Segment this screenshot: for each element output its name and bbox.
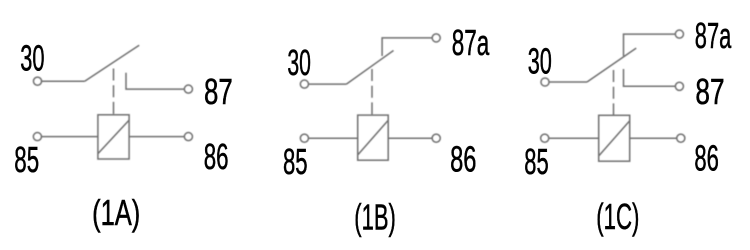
relay 1A: wire 85 to coil (41, 136, 98, 138)
relay 1B: switch arm (346, 51, 393, 85)
relay 1C: coil diagonal (599, 121, 629, 156)
relay 1C: terminal 86 (677, 134, 685, 142)
relay 1B: terminal 30 (300, 80, 308, 88)
relay 1B: NC contact and wire to 87a (382, 38, 433, 56)
svg-text:86: 86 (204, 138, 229, 178)
svg-text:87a: 87a (695, 17, 732, 57)
svg-text:86: 86 (450, 140, 476, 180)
relay 1B: coil box (358, 115, 389, 160)
relay 1A: wire 30 to pivot (41, 80, 85, 82)
svg-text:85: 85 (283, 143, 308, 183)
svg-text:85: 85 (14, 141, 39, 181)
relay 1C: coil box (599, 115, 630, 161)
relay 1C: NO contact and wire to 87 (624, 69, 676, 86)
relay 1A: switch arm (85, 45, 140, 81)
relay 1B: terminal 85 (300, 134, 308, 142)
relay 1C: terminal 87 (675, 82, 683, 90)
relay 1C: dashed actuator link (613, 70, 615, 115)
relay 1A: terminal 86 (184, 133, 192, 141)
relay 1A: wire coil to 86 (129, 136, 185, 138)
relay 1A: terminal 85 (33, 133, 41, 141)
relay 1A: terminal 30 (33, 77, 41, 85)
svg-text:87a: 87a (452, 24, 490, 64)
svg-text:(1C): (1C) (596, 198, 639, 238)
svg-text:(1B): (1B) (354, 198, 396, 238)
svg-text:87: 87 (204, 72, 233, 112)
relay 1B: terminal 86 (432, 134, 440, 142)
relay 1B: wire 30 to pivot (308, 83, 346, 85)
relay 1C: switch arm (587, 48, 636, 82)
relay 1C: terminal 87a (675, 30, 683, 38)
relay 1C: terminal 30 (541, 78, 549, 86)
relay 1C: wire coil to 86 (630, 137, 678, 139)
relay 1A: dashed actuator link (113, 69, 115, 115)
relay 1A: NO contact and wire to 87 (126, 73, 185, 89)
svg-text:87: 87 (695, 72, 724, 112)
relay 1B: coil diagonal (358, 121, 388, 155)
relay 1B: terminal 87a (432, 34, 440, 42)
svg-text:(1A): (1A) (92, 193, 140, 233)
relay 1C: NC contact and wire to 87a (624, 34, 676, 56)
relay 1C: terminal 85 (541, 134, 549, 142)
svg-text:30: 30 (20, 39, 44, 79)
relay 1A: terminal 87 (184, 85, 192, 93)
svg-text:86: 86 (694, 139, 718, 179)
svg-text:30: 30 (287, 43, 311, 83)
relay 1B: dashed actuator link (371, 69, 373, 115)
relay 1B: wire 85 to coil (308, 137, 358, 139)
relay 1A: coil diagonal (98, 120, 129, 153)
relay 1A: coil box (98, 115, 129, 159)
relay 1C: wire 30 to pivot (549, 81, 587, 83)
svg-text:30: 30 (528, 42, 552, 82)
relay 1C: wire 85 to coil (548, 137, 598, 139)
svg-text:85: 85 (524, 143, 548, 183)
relay 1B: wire coil to 86 (388, 137, 432, 139)
